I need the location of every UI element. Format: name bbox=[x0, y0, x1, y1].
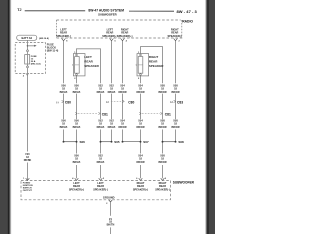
svg-text:BR/LB: BR/LB bbox=[60, 91, 68, 94]
svg-text:RD/BK: RD/BK bbox=[24, 159, 32, 162]
svg-text:BK/TN: BK/TN bbox=[107, 224, 115, 227]
svg-text:DB/LB: DB/LB bbox=[97, 161, 105, 164]
svg-text:S05: S05 bbox=[114, 140, 120, 144]
svg-text:C81: C81 bbox=[102, 112, 108, 116]
svg-text:C81: C81 bbox=[165, 112, 171, 116]
svg-text:BR/LB: BR/LB bbox=[73, 161, 81, 164]
svg-text:(8W-11-8): (8W-11-8) bbox=[31, 64, 41, 66]
svg-text:SPEAKER(-): SPEAKER(-) bbox=[56, 35, 71, 38]
svg-text:C83: C83 bbox=[177, 100, 183, 104]
svg-text:DB/LB: DB/LB bbox=[97, 91, 105, 94]
svg-text:SPEAKER(-): SPEAKER(-) bbox=[93, 188, 108, 191]
svg-text:SUBWOOFER: SUBWOOFER bbox=[173, 180, 195, 184]
svg-text:DB/OR: DB/OR bbox=[118, 126, 126, 129]
svg-text:DB/LB: DB/LB bbox=[108, 126, 116, 129]
svg-text:RADIO: RADIO bbox=[182, 19, 193, 23]
svg-text:SPEAKER(+): SPEAKER(+) bbox=[69, 188, 84, 191]
svg-text:DB/OR: DB/OR bbox=[118, 91, 126, 94]
svg-text:DB/OR: DB/OR bbox=[136, 161, 144, 164]
svg-text:DB/LB: DB/LB bbox=[97, 126, 105, 129]
svg-text:DB/OR: DB/OR bbox=[136, 91, 144, 94]
svg-text:C80: C80 bbox=[65, 100, 71, 104]
svg-text:SPEAKER(-): SPEAKER(-) bbox=[168, 35, 183, 38]
svg-text:(+): (+) bbox=[106, 102, 109, 104]
svg-text:SPEAKER(+): SPEAKER(+) bbox=[133, 188, 148, 191]
svg-text:SPEAKER: SPEAKER bbox=[84, 64, 99, 68]
svg-text:SPEAKER: SPEAKER bbox=[149, 64, 164, 68]
svg-text:(8W-11-4): (8W-11-4) bbox=[47, 49, 59, 53]
svg-text:BR/LB: BR/LB bbox=[73, 91, 81, 94]
svg-text:BR/OR: BR/OR bbox=[158, 126, 166, 129]
svg-text:S07: S07 bbox=[143, 140, 149, 144]
svg-text:GROUND: GROUND bbox=[103, 196, 115, 200]
svg-text:LEFT: LEFT bbox=[84, 55, 92, 59]
svg-text:OUTPUT: OUTPUT bbox=[23, 190, 33, 192]
svg-text:(-): (-) bbox=[56, 102, 58, 104]
svg-text:BR/OR: BR/OR bbox=[171, 91, 179, 94]
svg-text:BR/LB: BR/LB bbox=[60, 126, 68, 129]
svg-text:SPEAKER(+): SPEAKER(+) bbox=[117, 35, 132, 38]
svg-text:DB/OR: DB/OR bbox=[136, 126, 144, 129]
svg-text:DB/LB: DB/LB bbox=[108, 91, 116, 94]
svg-text:BATT A0: BATT A0 bbox=[21, 36, 32, 40]
svg-text:SUBWOOFER: SUBWOOFER bbox=[98, 12, 117, 16]
svg-text:BR/OR: BR/OR bbox=[171, 126, 179, 129]
svg-text:SPEAKER(+): SPEAKER(+) bbox=[102, 35, 117, 38]
svg-text:REAR: REAR bbox=[84, 60, 93, 64]
svg-text:S06: S06 bbox=[80, 140, 86, 144]
svg-text:8W - 47 - 3: 8W - 47 - 3 bbox=[177, 9, 198, 14]
svg-text:TJ: TJ bbox=[17, 8, 21, 12]
svg-text:BR/OR: BR/OR bbox=[158, 91, 166, 94]
svg-text:S08: S08 bbox=[178, 140, 184, 144]
svg-text:(+): (+) bbox=[170, 102, 173, 104]
svg-text:REAR: REAR bbox=[149, 60, 158, 64]
svg-text:C80: C80 bbox=[128, 100, 134, 104]
svg-text:BR/LB: BR/LB bbox=[73, 126, 81, 129]
svg-text:BR/OR: BR/OR bbox=[158, 161, 166, 164]
svg-text:(8W-10-8): (8W-10-8) bbox=[39, 38, 49, 40]
svg-text:RIGHT: RIGHT bbox=[149, 55, 159, 59]
svg-text:SPEAKER(-): SPEAKER(-) bbox=[155, 188, 170, 191]
